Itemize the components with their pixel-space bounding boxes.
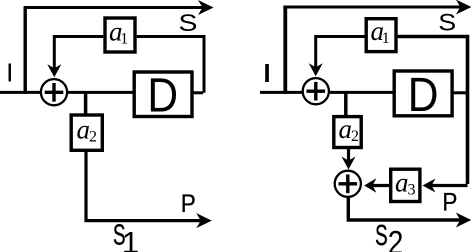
svg-text:2: 2 (89, 129, 97, 146)
svg-text:S: S (438, 10, 456, 36)
wire input I (system S2) (260, 91, 303, 94)
wire a1 to right vertical rail (system S2) (396, 37, 468, 185)
svg-text:1: 1 (120, 31, 128, 48)
wire feedback a1 to summer 1 (system S2) (316, 37, 365, 68)
wire input I (system S1) (0, 91, 41, 94)
svg-text:I: I (263, 60, 270, 88)
svg-text:D: D (147, 68, 178, 122)
wire branch input node to S tap (system S1) (24, 8, 27, 94)
label a3 (system S2) (395, 168, 416, 199)
wire summer 2 to P output (system S2) (348, 197, 460, 220)
wire branch to a2 (system S2) (344, 92, 348, 116)
label a2 (system S2) (339, 114, 360, 145)
svg-text:S: S (179, 9, 198, 36)
label a1 (system S1) (109, 17, 128, 48)
svg-text:1: 1 (122, 225, 139, 252)
block a1 (system S2) (366, 19, 396, 52)
arrowhead S output (system S1) (198, 0, 214, 15)
block D (system S1) (134, 72, 192, 117)
summing junction 1 (system S1) (41, 79, 67, 105)
svg-text:a: a (339, 114, 353, 144)
block D (system S2) (394, 71, 452, 116)
block a2 (system S2) (334, 117, 361, 148)
wire a2 to P output (system S1) (86, 151, 201, 221)
arrowhead into summer 2 from a2 (system S2) (342, 157, 356, 170)
block a3 (system S2) (391, 169, 420, 201)
block a1 (system S1) (105, 18, 135, 52)
arrowhead P output (system S2) (456, 213, 472, 228)
block a2 (system S1) (71, 115, 102, 150)
arrowhead into summer 1 (system S2) (309, 63, 323, 76)
wire summer 1 to D (system S1) (68, 91, 134, 94)
svg-text:S: S (375, 220, 388, 252)
svg-text:a: a (77, 115, 91, 145)
label S2 (system S2) (375, 220, 403, 252)
svg-text:P: P (181, 190, 196, 218)
wire summer 1 to D (system S2) (330, 91, 394, 94)
wire D to output node (system S1) (193, 91, 203, 94)
wire a1 to output node (system S1) (137, 37, 204, 93)
wire a3 to summer 2 (system S2) (373, 184, 391, 187)
svg-text:3: 3 (408, 182, 416, 199)
wire top S line (system S2) (283, 6, 461, 9)
wire branch input node to S tap (system S2) (283, 7, 287, 94)
svg-text:I: I (6, 57, 13, 87)
arrowhead into summer 1 (system S1) (47, 64, 61, 77)
svg-text:1: 1 (382, 30, 390, 47)
svg-text:2: 2 (351, 128, 359, 145)
svg-text:D: D (408, 68, 439, 122)
svg-text:a: a (395, 168, 409, 198)
wire a2 to summer 2 (system S2) (347, 148, 350, 161)
arrowhead S output (system S2) (456, 0, 472, 15)
svg-text:P: P (442, 188, 457, 216)
wire right rail to a3 (system S2) (431, 184, 468, 187)
wire D to right vertical rail (system S2) (453, 91, 467, 94)
summing junction 1 (system S2) (303, 78, 329, 104)
label S1 (system S1) (113, 220, 139, 252)
label a2 (system S1) (77, 115, 98, 146)
svg-text:2: 2 (388, 223, 404, 252)
summing junction 2 (system S2) (335, 171, 361, 197)
wire feedback a1 to summer 1 (system S1) (54, 37, 103, 70)
wire top S line (system S1) (24, 6, 203, 9)
arrowhead into summer 2 from a3 (system S2) (364, 178, 376, 192)
label a1 (system S2) (371, 16, 390, 47)
wire branch to a2 (system S1) (84, 92, 88, 114)
arrowhead into a3 (system S2) (423, 179, 436, 193)
arrowhead P output (system S1) (196, 213, 212, 228)
